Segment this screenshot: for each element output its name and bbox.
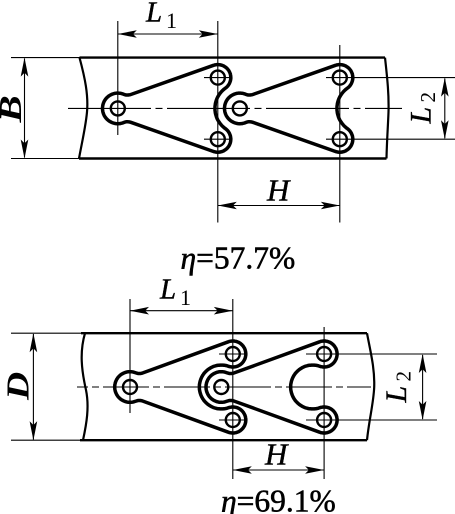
svg-text:H: H (264, 437, 289, 472)
dimension D lower arrowhead (30, 421, 38, 440)
strip 2 left break line (82, 333, 88, 440)
dimension L1 right arrowhead (bottom) (214, 307, 233, 315)
strip 1 bottom edge (thick) (79, 157, 387, 159)
strip 1 horizontal centerline (dash-dot) (68, 107, 402, 109)
part 1 apex hole (top strip) (111, 101, 125, 115)
strip 1 bottom edge extension (thin, left) (11, 158, 80, 160)
svg-text:2: 2 (416, 92, 440, 103)
dimension L2 arrow line (bottom) (422, 355, 424, 419)
part 1 outline (top strip) (103, 65, 231, 153)
extension line through part 1 apex (bottom L1 left) (129, 299, 131, 413)
dimension D upper arrowhead (30, 333, 38, 352)
part 2 lower corner hole (top strip) (333, 132, 347, 146)
strip 1 right break line (385, 58, 389, 159)
L2 lower extension line (top strip) (326, 138, 455, 140)
dimension L1 line (top) (118, 33, 218, 35)
dimension H line (bottom) (233, 469, 324, 471)
dimension L1 line (bottom) (130, 310, 233, 312)
svg-text:1: 1 (166, 8, 177, 33)
part 1 lower corner hole crosshair (204, 138, 233, 140)
part 1 lower corner hole (bottom strip) (226, 413, 240, 427)
part 1 apex hole (bottom strip) (123, 380, 137, 394)
part 2 upper corner hole (bottom strip) (317, 347, 331, 361)
strip 2 bottom edge extension (thin, left) (11, 439, 81, 441)
part 1 upper corner hole crosshair (204, 77, 233, 79)
part 1 upper corner hole (top strip) (211, 71, 225, 85)
svg-text:D: D (0, 372, 36, 401)
dimension H left arrowhead (bottom) (233, 466, 252, 474)
dimension H right arrowhead (bottom) (305, 466, 324, 474)
strip 2 horizontal centerline (dash-dot) (77, 386, 371, 388)
dimension D arrow line (32, 334, 34, 440)
L2 upper extension line (top strip) (326, 77, 455, 79)
part 2 lower corner hole (bottom strip) (317, 413, 331, 427)
svg-text:η=57.7%: η=57.7% (181, 241, 296, 276)
svg-text:L: L (405, 107, 438, 125)
dimension H left arrowhead (top) (218, 202, 237, 210)
svg-text:H: H (266, 173, 291, 208)
part 1 upper corner hole crosshair (bottom) (219, 353, 247, 355)
part 2 apex hole (top strip) (233, 101, 247, 115)
strip 2 bottom edge (thick) (80, 439, 367, 441)
svg-text:2: 2 (392, 371, 416, 382)
dimension L2 upper arrowhead (bottom) (419, 354, 427, 373)
dimension L1 left arrowhead (top) (118, 30, 137, 38)
dimension B lower arrowhead (21, 140, 29, 159)
extension line through part 1 corners (L1 right / H left) (217, 21, 219, 223)
svg-text:B: B (0, 95, 28, 123)
dimension L2 lower arrowhead (bottom) (419, 401, 427, 420)
dimension H line (top) (218, 205, 340, 207)
extension line through part 1 apex (L1 left) (117, 21, 119, 135)
svg-text:1: 1 (180, 285, 191, 310)
extension line through part 1 corners (bottom L1 right / H left) (232, 299, 234, 479)
strip 2 right break line (367, 333, 374, 440)
dimension L2 upper arrowhead (top) (441, 78, 449, 97)
dimension H right arrowhead (top) (321, 202, 340, 210)
dimension L2 lower arrowhead (top) (441, 120, 449, 139)
svg-text:L: L (145, 0, 162, 29)
part 2 outline (bottom strip) (206, 341, 337, 433)
L2 upper extension line (bottom strip) (306, 353, 437, 355)
part 1 lower corner hole (top strip) (211, 132, 225, 146)
strip 2 top edge extension (thin, left) (11, 332, 82, 334)
part 2 apex hole (bottom strip) (214, 380, 228, 394)
strip 2 top edge (thick) (81, 332, 367, 334)
svg-text:η=69.1%: η=69.1% (221, 484, 336, 514)
L2 lower extension line (bottom strip) (306, 419, 437, 421)
extension line through part 2 corners (bottom H right) (323, 327, 325, 479)
dimension B arrow line (24, 59, 26, 158)
dimension L1 left arrowhead (bottom) (130, 307, 149, 315)
extension line through part 2 corners (H right) (339, 45, 341, 223)
part 1 lower corner hole crosshair (bottom) (219, 419, 247, 421)
dimension L1 right arrowhead (top) (199, 30, 218, 38)
part 2 upper corner hole (top strip) (333, 71, 347, 85)
svg-text:L: L (159, 274, 176, 306)
dimension L2 arrow line (top) (444, 79, 446, 139)
strip 1 top edge extension (thin, left) (11, 57, 80, 59)
svg-text:L: L (380, 386, 413, 404)
dimension B upper arrowhead (21, 58, 29, 77)
part 1 upper corner hole (bottom strip) (226, 347, 240, 361)
part 2 outline (top strip) (225, 65, 353, 153)
strip 1 top edge (thick) (80, 56, 386, 58)
part 1 outline (bottom strip) (115, 341, 246, 433)
strip 1 left break line (79, 58, 87, 159)
